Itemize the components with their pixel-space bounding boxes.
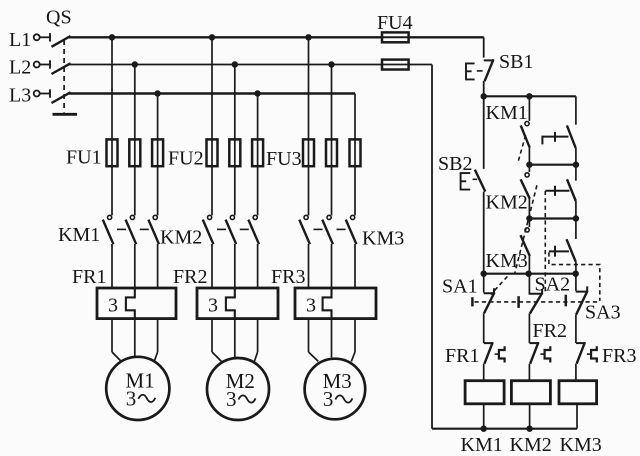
mech link diagonal (dashed)	[515, 185, 537, 273]
svg-text:3: 3	[323, 387, 334, 411]
wire node1 to KM1 aux	[528, 96, 530, 121]
wire SA3 to FR3	[575, 315, 577, 343]
coil KM2	[511, 381, 550, 404]
contact C3 seat tick	[554, 246, 556, 257]
contact KM1 pole 2 blade	[126, 220, 137, 245]
svg-text:FU4: FU4	[377, 12, 413, 34]
pushbutton SB2 actuator E	[461, 173, 471, 190]
wire branch3 phase3 lower	[354, 319, 356, 352]
svg-text:FR1: FR1	[72, 266, 106, 288]
fuse FU1 pole 1	[107, 139, 118, 166]
node rail KM2	[526, 426, 532, 432]
fuse FU2 pole 1	[207, 139, 218, 166]
fuse FU3 pole 1	[303, 139, 314, 166]
contact KM3 pole 1 blade	[299, 220, 310, 245]
wire branch2 phase2 lower	[234, 319, 236, 358]
motor M2	[207, 358, 269, 420]
switch SA1 seat	[484, 288, 495, 294]
contact FR1 aux seat	[484, 342, 494, 344]
wire row2 down column C	[575, 165, 577, 181]
contact C3 seat bar	[549, 250, 569, 252]
wire row3 down column C	[575, 219, 577, 239]
svg-text:3: 3	[126, 386, 137, 410]
contact KM3 pole 2 blade	[322, 220, 333, 245]
contactor KM1 linkage dash b	[140, 228, 149, 230]
wire branch2 phase2 middle	[234, 244, 236, 288]
switch SA1 operator bar	[471, 297, 474, 306]
svg-text:FU1: FU1	[66, 147, 102, 169]
wire C3 to row 4	[575, 262, 577, 274]
switch SA3 operator bar	[565, 295, 568, 307]
wire branch1 phase2 upper	[134, 65, 136, 216]
svg-text:FU2: FU2	[168, 148, 204, 170]
contact KM2 pole 1 blade	[203, 220, 214, 245]
wire C1 to row 2	[575, 148, 577, 165]
wire node1 corner down column C	[575, 96, 577, 124]
switch SA3 seat	[576, 286, 588, 292]
switch SA1 blade	[484, 292, 495, 313]
wire L1 to control feed	[409, 36, 484, 38]
mech link SA3 path (dashed)	[549, 252, 600, 301]
contact FR3 aux link dash	[587, 353, 591, 355]
contactor KM2 linkage dash a	[217, 228, 226, 230]
node 3 right	[573, 215, 579, 221]
contact FR1 aux link dash	[495, 353, 499, 355]
wire L2 bus	[69, 64, 382, 66]
node 2 right	[573, 162, 579, 168]
node 4 at SA3	[573, 271, 579, 277]
contact KM2 aux fixed	[525, 173, 529, 177]
wire row 1	[484, 95, 576, 97]
wire branch3 phase3 upper	[354, 94, 356, 216]
contact C2 blade	[567, 179, 576, 201]
wire SA2 to FR2	[528, 314, 530, 343]
svg-text:KM1: KM1	[461, 434, 503, 456]
wire branch3 phase2 upper	[331, 65, 333, 216]
pushbutton SB1 seat	[484, 59, 494, 61]
wire row 3	[529, 217, 576, 219]
fuse FU3 pole 3	[350, 139, 361, 166]
contact KM1 pole 3 fixed contact	[153, 215, 157, 219]
thermal relay FR2 heater element	[226, 288, 235, 319]
contact FR2 aux element hook	[545, 346, 551, 362]
pushbutton SB1 actuator E	[466, 63, 475, 79]
wire branch1 phase3 upper	[157, 94, 159, 216]
wire branch2 phase3 upper	[257, 94, 259, 216]
wire L3 bus	[69, 92, 355, 94]
fuse FU2 pole 3	[252, 139, 263, 166]
wire L1 terminal stub	[40, 36, 50, 38]
wire branch3 phase2 lower	[331, 319, 333, 358]
wire C2 to row 3	[575, 201, 577, 219]
tilde M3	[335, 395, 352, 402]
node 4 at SA2	[525, 271, 531, 277]
switch SA2 operator bar	[517, 296, 520, 308]
fuse FU4b	[382, 60, 409, 70]
svg-text:FU3: FU3	[266, 148, 302, 170]
wire branch3 phase1 middle	[308, 244, 310, 288]
svg-text:SA2: SA2	[535, 274, 571, 296]
pushbutton SB2 actuator link	[473, 178, 478, 180]
wire KM2 aux to row 3	[528, 199, 530, 219]
switch QS blade pole 2	[52, 63, 71, 74]
fuse FU2 pole 2	[229, 139, 240, 166]
wire branch3 phase1 lower	[308, 319, 310, 352]
node L2-branch3	[328, 61, 334, 67]
svg-text:L2: L2	[9, 57, 31, 79]
switch QS handle bar	[53, 113, 78, 116]
wire KM3 aux to row 4	[528, 256, 530, 274]
fuse FU3 pole 2	[326, 139, 337, 166]
tilde M2	[239, 395, 256, 402]
wire KM1 aux to row 2	[528, 148, 530, 165]
thermal relay FR3 box	[295, 288, 376, 319]
coil KM1	[465, 381, 504, 404]
wire coil KM1 to rail	[483, 404, 485, 429]
wire L2 terminal stub	[40, 64, 50, 66]
node L1-branch3	[305, 34, 311, 40]
contactor KM3 linkage dash a	[314, 228, 323, 230]
pushbutton SB2 blade	[475, 170, 485, 192]
contactor KM2 linkage dash b	[240, 228, 249, 230]
svg-text:SB2: SB2	[438, 153, 472, 175]
contactor KM3 linkage dash b	[337, 228, 346, 230]
wire node1 to SB2	[483, 96, 485, 169]
wire row4 to SA3	[575, 274, 577, 291]
contact C2 seat tick	[554, 186, 556, 196]
switch SA2 blade	[530, 293, 543, 314]
motor M1	[106, 357, 169, 420]
contact KM3 pole 1 fixed contact	[304, 215, 308, 219]
wire branch3 phase2 middle	[331, 244, 333, 288]
wire branch3 phase1 upper	[308, 37, 310, 215]
svg-text:3: 3	[208, 295, 218, 317]
node 3 left	[526, 215, 532, 221]
contact KM2 pole 1 fixed contact	[208, 215, 212, 219]
wire branch1 phase2 lower	[134, 319, 136, 358]
terminal L2	[34, 62, 40, 68]
wire branch2 phase3 lower	[257, 319, 259, 352]
svg-text:SB1: SB1	[499, 51, 533, 73]
svg-text:KM3: KM3	[560, 434, 602, 456]
svg-text:FR2: FR2	[173, 266, 207, 288]
switch SA3 blade	[576, 291, 587, 315]
wire SB2 to row 4	[483, 192, 485, 274]
svg-text:SA1: SA1	[442, 275, 478, 297]
wire SA1 to FR1	[483, 313, 485, 343]
mech link SA2 vertical (dashed)	[544, 191, 546, 292]
svg-text:KM2: KM2	[160, 227, 202, 249]
coil KM3	[559, 381, 597, 404]
mech link SA row (dashed)	[475, 301, 600, 303]
wire branch2 phase3 middle	[257, 244, 259, 288]
contact KM1 pole 2 fixed contact	[130, 215, 134, 219]
svg-text:KM1: KM1	[58, 224, 100, 246]
svg-text:QS: QS	[46, 7, 72, 29]
contact KM1 aux fixed	[525, 122, 529, 126]
svg-text:FR3: FR3	[602, 345, 636, 367]
svg-text:FR2: FR2	[533, 320, 567, 342]
svg-text:L3: L3	[9, 85, 31, 107]
pushbutton SB1 actuator link	[477, 70, 483, 72]
contact KM2 aux blade	[521, 179, 530, 198]
contact FR3 aux seat	[576, 342, 586, 344]
wire branch2 phase1 lower	[211, 319, 213, 352]
contact KM1 pole 3 blade	[148, 220, 159, 245]
svg-text:3: 3	[226, 387, 237, 411]
wire branch1 phase1 upper	[111, 37, 113, 215]
node L3-branch1	[154, 90, 160, 96]
wire row 2	[529, 164, 576, 166]
wire branch2 phase1 upper	[211, 37, 213, 215]
node L3-branch2	[254, 90, 260, 96]
contact KM1 aux blade	[521, 125, 530, 147]
thermal relay FR1 heater element	[126, 288, 135, 319]
wire row4 to SA1	[483, 274, 485, 293]
contact FR2 aux blade	[530, 342, 538, 364]
mech link KM1 (dashed)	[518, 135, 526, 163]
node L1-branch2	[209, 34, 215, 40]
contact C2 seat bar	[546, 190, 570, 192]
thermal relay FR1 box	[97, 288, 176, 319]
tilde M1	[138, 395, 155, 402]
wire row3 to KM3 aux	[528, 219, 530, 228]
node 1 at KM1 aux	[526, 93, 532, 99]
svg-text:3: 3	[306, 295, 316, 317]
wire L1 bus	[69, 36, 382, 38]
contact C1 blade	[567, 125, 576, 148]
switch QS blade pole 3	[52, 92, 71, 103]
node L2-branch1	[132, 61, 138, 67]
contact KM2 pole 3 blade	[248, 220, 259, 245]
node 4 at SA1	[481, 271, 487, 277]
contact FR3 aux blade	[577, 342, 585, 364]
contact seat L2	[49, 60, 51, 68]
svg-text:KM3: KM3	[486, 250, 528, 272]
wire through fuse FU4a	[382, 36, 409, 38]
wire row4 to SA2	[528, 274, 530, 294]
contact KM1 pole 1 blade	[103, 220, 114, 245]
contact C3 blade	[567, 239, 576, 262]
contact KM2 pole 2 blade	[226, 220, 237, 245]
wire branch1 phase1 middle	[111, 244, 113, 288]
terminal L3	[34, 91, 40, 97]
node rail KM1	[481, 426, 487, 432]
wire coil KM2 to rail	[529, 404, 531, 429]
wire branch2 phase1 middle	[211, 244, 213, 288]
svg-text:L1: L1	[9, 29, 31, 51]
svg-text:KM3: KM3	[362, 228, 404, 250]
contact KM3 pole 2 fixed contact	[327, 215, 331, 219]
contact FR1 aux blade	[484, 342, 492, 364]
wire branch2 phase2 upper	[234, 65, 236, 216]
fuse FU1 pole 2	[129, 139, 140, 166]
svg-text:KM2: KM2	[486, 192, 528, 214]
wire left control rail	[431, 65, 433, 429]
wire FR2 to coil KM2	[528, 364, 530, 381]
thermal relay FR3 heater element	[323, 288, 332, 319]
contact KM3 aux fixed	[525, 228, 529, 232]
wire coil KM3 to rail	[576, 404, 578, 429]
contact FR2 aux seat	[529, 342, 539, 344]
fuse FU1 pole 3	[152, 139, 163, 166]
wire L2 to left control rail	[409, 64, 432, 66]
contact KM3 pole 3 fixed contact	[351, 215, 355, 219]
wire branch3 phase3 middle	[354, 244, 356, 288]
wire branch1 phase1 lower	[111, 319, 113, 352]
wire L3 terminal stub	[40, 93, 50, 95]
contact FR3 aux element hook	[591, 346, 597, 362]
node 1 at SB1	[481, 93, 487, 99]
node 2 left	[526, 162, 532, 168]
switch SA2 seat	[529, 289, 543, 294]
contact FR2 aux link dash	[540, 353, 544, 355]
wire SB1 to node 1	[483, 81, 485, 96]
contact KM2 pole 3 fixed contact	[253, 215, 257, 219]
wire branch1 phase3 lower	[157, 319, 159, 352]
svg-text:KM1: KM1	[486, 102, 528, 124]
wire through fuse FU4b	[382, 64, 409, 66]
contact KM3 pole 3 blade	[346, 220, 357, 245]
wire FR3 to coil KM3	[575, 364, 577, 381]
contact C1 seat bar	[542, 137, 568, 145]
wire control feed down	[483, 37, 485, 57]
svg-text:SA3: SA3	[585, 302, 621, 324]
switch QS linkage (dashed)	[63, 40, 65, 113]
wire branch1 phase2 middle	[134, 244, 136, 288]
contact KM1 pole 1 fixed contact	[108, 215, 112, 219]
terminal L1	[34, 34, 40, 40]
contact seat L1	[49, 33, 51, 41]
contact C1 seat tick	[554, 132, 556, 142]
svg-text:FR3: FR3	[271, 266, 305, 288]
svg-text:3: 3	[108, 295, 118, 317]
svg-text:FR1: FR1	[445, 345, 479, 367]
svg-text:KM2: KM2	[510, 434, 552, 456]
wire branch1 phase3 middle	[157, 244, 159, 288]
wire FR1 to coil KM1	[483, 364, 485, 381]
switch QS blade pole 1	[52, 36, 71, 47]
mech link to SA1 (dashed)	[491, 276, 508, 294]
motor M3	[305, 359, 366, 420]
fuse FU4a	[382, 32, 409, 42]
pushbutton SB1 blade	[485, 59, 494, 81]
wire row 4	[484, 273, 578, 275]
contactor KM1 linkage dash a	[117, 228, 126, 230]
wire bottom rail	[432, 428, 577, 430]
contact KM3 aux blade	[521, 235, 530, 256]
contact seat L3	[49, 89, 51, 97]
contact KM2 pole 2 fixed contact	[230, 215, 234, 219]
wire row2 to KM2 aux	[528, 165, 530, 172]
contact FR1 aux element hook	[499, 346, 505, 362]
thermal relay FR2 box	[197, 288, 278, 319]
node L1-branch1	[109, 34, 115, 40]
node L2-branch2	[232, 61, 238, 67]
